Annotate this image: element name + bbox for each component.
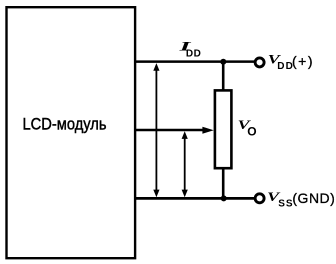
svg-text:DD: DD <box>186 49 201 60</box>
dimension arrow VDD-VSS (double-headed) <box>153 63 159 197</box>
node/junction dot on VDD wire <box>220 59 226 65</box>
dimension arrow VO-VSS (double-headed) <box>182 131 188 197</box>
resistor (potentiometer body) VO <box>215 90 232 168</box>
svg-text:O: O <box>247 124 256 138</box>
wire: resistor bottom lead <box>222 168 225 198</box>
terminal VDD(+) <box>255 58 264 67</box>
node/junction dot on VSS wire <box>221 195 227 201</box>
svg-text:(+): (+) <box>292 53 314 69</box>
wire VSS (bottom, from module to terminal) <box>135 197 255 200</box>
svg-text:LCD-модуль: LCD-модуль <box>23 115 107 133</box>
wire VO (middle, from module, arrowhead into resistor) <box>135 129 205 132</box>
wire: resistor top lead <box>222 62 225 90</box>
LCD module block U1 <box>7 7 136 258</box>
svg-text:(GND): (GND) <box>292 190 335 206</box>
wire VDD (top, from module to terminal) <box>135 60 255 63</box>
svg-text:SS: SS <box>278 199 293 210</box>
terminal VSS(GND) <box>255 194 264 203</box>
